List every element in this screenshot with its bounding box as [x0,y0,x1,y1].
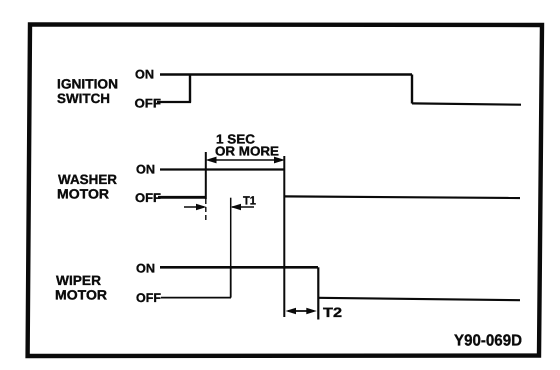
wire ignition falling edge [411,75,413,104]
wire washer falling edge (extends down through wiper area) [283,156,285,317]
svg-text:IGNITION: IGNITION [57,77,118,92]
wire wiper rising edge [230,267,232,298]
wire washer OFF left (bold) [158,196,206,199]
wire ignition OFF left [157,101,191,103]
label IGNITION SWITCH [57,77,118,107]
svg-text:T1: T1 [243,194,256,208]
wire wiper OFF right [318,298,520,300]
svg-text:T2: T2 [323,305,342,320]
dimension arrow T1 right [231,204,255,211]
svg-text:SWITCH: SWITCH [57,91,110,106]
wire ignition ON level [160,73,412,76]
dimension arrow 1 SEC OR MORE [206,157,286,164]
wire washer ON level [160,168,284,170]
wire T1 tick / wiper rising edge extension [230,198,232,267]
svg-text:WIPER: WIPER [56,273,101,288]
dimension arrow T2 [286,308,317,315]
wire ignition rising edge [189,75,191,103]
svg-text:ON: ON [135,68,154,82]
wire washer rising edge (extends to arrow above and dashes below) [205,152,207,199]
svg-text:MOTOR: MOTOR [57,187,109,202]
svg-text:OR MORE: OR MORE [215,144,279,159]
label WIPER MOTOR [55,273,107,303]
svg-text:ON: ON [136,163,155,177]
svg-text:OFF: OFF [135,191,161,205]
wire wiper ON level [160,266,318,269]
svg-text:ON: ON [136,262,155,276]
label WASHER MOTOR [57,172,117,202]
dimension arrow T1 left [184,204,207,211]
wire ignition OFF right [412,103,521,104]
svg-text:Y90-069D: Y90-069D [454,333,522,350]
svg-text:MOTOR: MOTOR [55,288,107,303]
svg-text:WASHER: WASHER [58,172,117,187]
svg-text:OFF: OFF [136,291,161,305]
wire wiper falling edge (extends down to T2 arrow) [317,267,319,319]
wire wiper OFF left [161,297,231,299]
wire washer OFF right [284,196,520,198]
svg-text:OFF: OFF [135,97,162,111]
